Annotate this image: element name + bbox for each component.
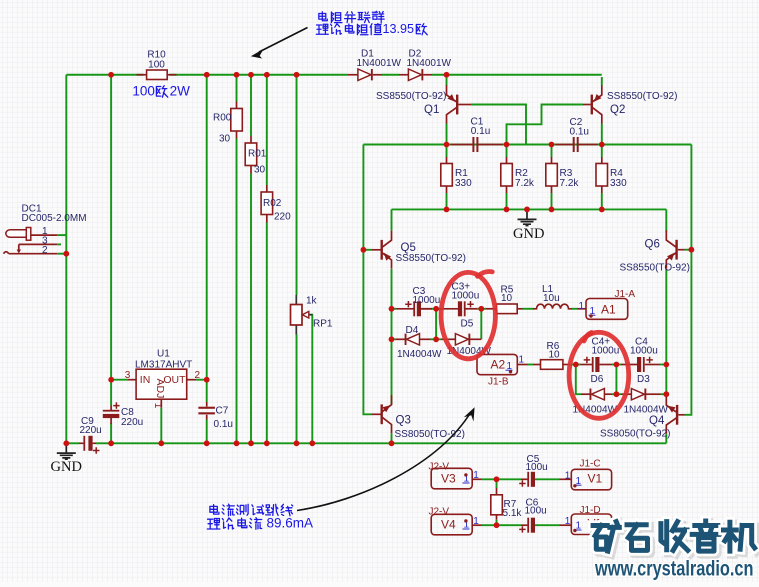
resistor R3 [546, 164, 558, 187]
wire Q6 base stub [678, 249, 685, 251]
wire R2 top stub [506, 157, 508, 164]
wire D3 right stub [645, 393, 660, 395]
svg-text:J1-C: J1-C [580, 459, 601, 470]
connector J1-C box V1 [571, 469, 611, 490]
wire C8 bottom stub [110, 417, 112, 424]
wire Q3 to bottom rail [391, 433, 393, 443]
svg-text:J1-B: J1-B [488, 376, 509, 387]
wire top rail D1 to D2 [382, 74, 399, 76]
svg-text:J1-D: J1-D [580, 505, 601, 516]
svg-text:1N4004W: 1N4004W [397, 349, 442, 360]
ground GND top [518, 209, 537, 225]
wire C3 right stub [422, 308, 433, 310]
ground GND bottom left [57, 443, 76, 459]
capacitor C8 [103, 402, 120, 418]
wire DC input left column [65, 235, 67, 443]
wire C7 top stub [206, 402, 208, 407]
wire Q1 emitter green [446, 77, 448, 86]
svg-text:SS8050(TO-92): SS8050(TO-92) [600, 429, 670, 440]
annotation arrow to resistor group [251, 28, 308, 59]
capacitor C4+ [584, 357, 600, 372]
svg-text:0.1u: 0.1u [570, 127, 589, 138]
junction bottom rail / R01 [248, 440, 254, 446]
wire top rail R10 to D1 [170, 74, 349, 76]
svg-text:V1: V1 [588, 472, 603, 486]
svg-text:10: 10 [549, 349, 561, 360]
transistor Q5 SS8550 [381, 231, 392, 269]
svg-text:ADJ: ADJ [154, 379, 166, 399]
wire junction-D3 green [616, 393, 621, 395]
svg-text:2: 2 [42, 245, 48, 256]
wire U1 pin3 green [111, 379, 128, 381]
pin dot A1 [589, 314, 592, 317]
wire DC1 pin1 to column [57, 234, 66, 236]
junction C3 row left [389, 306, 395, 312]
junction top rail / Q1 emitter [444, 72, 450, 78]
wire R5-L1 green [523, 308, 534, 310]
junction C4+ / C4 [614, 362, 620, 368]
wire R10 left stub [137, 74, 147, 76]
wire top rail left of R10 [66, 74, 143, 76]
resistor R00 [231, 109, 243, 132]
svg-text:3: 3 [125, 370, 131, 381]
svg-text:330: 330 [455, 178, 472, 189]
svg-text:GND: GND [513, 226, 544, 242]
wire R6 right stub [563, 364, 568, 366]
pin dot V3 [464, 473, 467, 476]
wire RP1 top [296, 75, 298, 295]
annotation curved arrow to J1-B jumper [297, 407, 475, 510]
junction C1 row / R2 [504, 142, 510, 148]
svg-text:7.2k: 7.2k [515, 178, 535, 189]
resistor R1 [441, 164, 453, 187]
svg-text:30: 30 [219, 133, 231, 144]
capacitor C6 [519, 518, 535, 533]
svg-text:89.6mA: 89.6mA [267, 516, 314, 531]
capacitor C9 [79, 436, 100, 454]
resistor R02 [261, 192, 273, 215]
wire U1 pin3 stub [128, 379, 136, 381]
wire C4 junction vertical [615, 365, 617, 395]
wire V3 pin stub [472, 478, 481, 480]
svg-text:1k: 1k [306, 295, 318, 306]
svg-text:1000u: 1000u [592, 345, 620, 356]
wire C4plus-C4 green [612, 364, 622, 366]
wire Q6 collector from GND rail [665, 209, 667, 231]
wire column C7 lower [206, 420, 208, 444]
wire R3 top green [551, 145, 553, 158]
wire R01 top green [250, 75, 252, 136]
resistor R5 [497, 304, 518, 314]
wire R10 right stub [167, 74, 176, 76]
wire Q6 emitter column [665, 269, 667, 394]
diode D4 [405, 334, 420, 345]
wire Q4 base stub [678, 414, 684, 416]
junction C4 right / Q6 column [663, 362, 669, 368]
capacitor C7 [198, 407, 215, 415]
diode D2 [408, 69, 423, 81]
svg-text:1N4001W: 1N4001W [407, 58, 452, 69]
wire D4 row left green [392, 338, 397, 340]
wire R1 top green [446, 145, 448, 158]
wire C1 row to Q5 base [362, 145, 364, 250]
wire D2 cathode stub [423, 74, 432, 76]
wire D4-D5 green [431, 338, 442, 340]
wire C3 left stub [397, 308, 414, 310]
svg-text:7.2k: 7.2k [560, 178, 580, 189]
junction GND rail / R3 [549, 207, 555, 213]
wire R2 top green [506, 145, 508, 158]
wire A2-R6 green [528, 364, 534, 366]
wire DC1 pin2 to column [57, 253, 66, 255]
junction bottom rail / C8 [108, 440, 114, 446]
capacitor C2 [573, 137, 579, 152]
wire V1 pin stub [560, 478, 572, 480]
junction bottom rail / R02 [264, 440, 270, 446]
regulator U1 LM317AHVT box [136, 369, 187, 399]
diode D5 [455, 334, 470, 345]
junction top rail / RP1 [294, 72, 300, 78]
diode D6 [590, 389, 605, 400]
wire R00 top stub [236, 102, 238, 110]
wire C6 left stub [521, 524, 527, 526]
transistor Q4 SS8050 [666, 396, 678, 434]
junction C3+ right [478, 306, 484, 312]
wire R3 bottom stub [551, 186, 553, 194]
svg-text:220: 220 [274, 211, 291, 222]
svg-text:Q4: Q4 [649, 415, 665, 427]
wire Q5 emitter green [391, 209, 393, 230]
junction C2 row / R3 [549, 142, 555, 148]
junction GND rail / R1 [444, 207, 450, 213]
wire C3plus right stub [465, 308, 477, 310]
wire R2 bottom green [506, 193, 508, 209]
connector J1-A box [586, 299, 628, 320]
annotation text 电阻并联群 [319, 12, 328, 21]
wire U1 pin1 stub [160, 399, 162, 408]
junction D4 / D5 [433, 336, 439, 342]
junction D3 / Q4 emitter [663, 391, 669, 397]
pin dot V2 [573, 529, 576, 532]
wire top rail D2 to Q2 [432, 74, 602, 76]
svg-text:13.95: 13.95 [383, 22, 415, 36]
connector DC1 barrel jack symbol [4, 228, 58, 254]
wire Q2 collector green [601, 124, 603, 145]
capacitor C1 [472, 137, 478, 152]
wire C4 left stub [621, 364, 637, 366]
wire R5 right stub [517, 308, 523, 310]
wire C2 left green nub [552, 144, 556, 146]
junction top rail / R01 [248, 72, 254, 78]
svg-text:D3: D3 [637, 374, 650, 385]
capacitor C4 [637, 357, 653, 372]
svg-text:5.1k: 5.1k [503, 508, 523, 519]
wire V4 to C6 green [482, 524, 522, 526]
wire R3 top stub [551, 157, 553, 164]
wire R00 top green [236, 75, 238, 102]
pin dot A2 [509, 370, 512, 373]
wire Q3 base stub [372, 413, 381, 415]
wire GND rail [392, 208, 667, 210]
svg-text:RP1: RP1 [313, 319, 333, 330]
svg-text:Q2: Q2 [610, 104, 625, 116]
wire R4 top green [601, 145, 603, 158]
wire Q2 emitter green [601, 77, 603, 86]
wire V2 pin stub [560, 524, 572, 526]
hand-drawn red circle around C4+ D6 [569, 332, 629, 418]
wire D3 left stub [621, 393, 632, 395]
wire C1 left green nub [447, 144, 451, 146]
wire C1 left stub [451, 144, 473, 146]
junction GND rail / R2 [504, 207, 510, 213]
svg-text:1: 1 [152, 403, 163, 409]
wire C2 row to right column [602, 144, 692, 146]
wire L1 to A1 green [572, 308, 578, 310]
wire U1 pin1 to bottom rail [160, 408, 162, 444]
svg-text:Q6: Q6 [645, 238, 660, 250]
junction C1 row / R1 [444, 142, 450, 148]
svg-text:J1-A: J1-A [615, 289, 636, 300]
wire D6 left stub [581, 393, 590, 395]
capacitor C3+ [458, 301, 474, 316]
resistor R7 [491, 495, 503, 515]
resistor R4 [596, 164, 608, 187]
junction bottom rail / C7 [204, 440, 210, 446]
wire Q2 base cross-coupling [507, 105, 584, 145]
wire Q5 base column to Q3 base [363, 250, 371, 414]
junction bottom rail / Q3 [389, 440, 395, 446]
svg-text:D6: D6 [591, 374, 604, 385]
svg-text:1N4004W: 1N4004W [624, 405, 669, 416]
inductor L1 [533, 304, 572, 309]
svg-text:2: 2 [195, 370, 201, 381]
wire C3 right stub [421, 308, 431, 310]
wire R02 bottom green [266, 223, 268, 444]
wire V3 to C5 green [482, 478, 522, 480]
wire R2 bottom stub [506, 186, 508, 194]
wire right column C2 row to Q4 base [685, 145, 692, 415]
svg-text:R02: R02 [263, 198, 282, 209]
wire R00 bottom stub [236, 131, 238, 139]
connector J2-V box V4 [431, 514, 472, 535]
wire A1 pin stub [578, 308, 587, 310]
resistor R2 [501, 164, 513, 187]
wire R7 bottom stub [496, 514, 498, 519]
svg-text:1000u: 1000u [413, 295, 441, 306]
wire R4 bottom green [601, 193, 603, 209]
wire R6-C4plus green [568, 364, 581, 366]
annotation text 电流测试跳线 [210, 505, 219, 514]
wire C3-C3plus green [431, 308, 441, 310]
pin dot V4 [464, 519, 467, 522]
svg-text:SS8550(TO-92): SS8550(TO-92) [376, 91, 446, 102]
wire R1 top stub [446, 157, 448, 164]
connector J1-B box [477, 354, 517, 374]
wire U1 pin2 green [196, 379, 207, 381]
svg-text:R00: R00 [213, 113, 232, 124]
wire A2 pin stub [517, 364, 527, 366]
svg-text:LM317AHVT: LM317AHVT [135, 359, 192, 370]
svg-text:0.1u: 0.1u [214, 419, 233, 430]
wire R3 bottom green [551, 193, 553, 209]
svg-text:U1: U1 [157, 349, 170, 360]
wire C6 to V2 green [535, 524, 560, 526]
junction bottom rail / RP1 [294, 440, 300, 446]
svg-text:Q5: Q5 [401, 242, 416, 254]
svg-text:100: 100 [148, 59, 165, 70]
wire R1 bottom green [446, 193, 448, 209]
pin dot V1 [573, 484, 576, 487]
junction DC1 pin2 [63, 251, 69, 257]
wire C2 right green nub [598, 144, 602, 146]
wire Q1 collector green [446, 124, 448, 145]
wire D3-Q4 green [661, 393, 667, 395]
annotation text 理论电流 89.6mA [207, 519, 220, 530]
svg-text:1000u: 1000u [630, 345, 658, 356]
junction top rail / C7 column [204, 72, 210, 78]
junction Q5 base [361, 247, 367, 253]
svg-text:30: 30 [254, 165, 266, 176]
watermark logo 矿石收音机 [596, 524, 627, 554]
wire C3 row left green [392, 308, 397, 310]
svg-text:1N4001W: 1N4001W [357, 58, 402, 69]
svg-text:www.crystalradio.cn: www.crystalradio.cn [594, 557, 753, 581]
wire R01 top stub [250, 136, 252, 144]
svg-text:10u: 10u [543, 293, 560, 304]
svg-text:1: 1 [565, 516, 571, 527]
wire C2 right stub [579, 144, 598, 146]
wire C3plus-D5 vertical green [480, 309, 482, 340]
wire RP1 wiper to bottom rail [306, 315, 312, 444]
wire R7 bottom green [496, 520, 498, 525]
wire D2 anode stub [399, 74, 408, 76]
wire bottom rail left [66, 442, 79, 444]
wire V4 pin stub [472, 524, 481, 526]
resistor R6 [541, 360, 563, 370]
svg-text:1: 1 [579, 301, 585, 312]
svg-text:330: 330 [610, 178, 627, 189]
wire D1 anode stub [348, 74, 358, 76]
capacitor C3 [405, 301, 421, 316]
junction C2 row / R4 [599, 142, 605, 148]
wire C3-D4 junction vertical [435, 309, 437, 340]
wire C4plus left stub [581, 364, 593, 366]
connector J2-V box V3 [431, 468, 472, 489]
svg-text:2W: 2W [170, 83, 191, 98]
svg-text:Q1: Q1 [424, 104, 439, 116]
junction bottom rail / GND [63, 440, 69, 446]
wire RP1 bottom [296, 335, 298, 444]
wire C3plus-R5 green [477, 308, 486, 310]
resistor R01 [245, 143, 257, 166]
svg-text:100u: 100u [525, 506, 547, 517]
wire R1 bottom stub [446, 186, 448, 194]
hand-drawn red circle around C3+ D5 [441, 272, 495, 359]
wire C1 right green nub [503, 144, 507, 146]
wire R02 bottom stub [266, 215, 268, 223]
wire R4 bottom stub [601, 186, 603, 194]
capacitor C5 [519, 472, 535, 487]
wire C4plus right stub [600, 364, 612, 366]
wire C4 right stub [645, 364, 660, 366]
svg-text:0.1u: 0.1u [471, 126, 490, 137]
svg-text:D5: D5 [461, 318, 474, 329]
junction C3 / C3+ [433, 306, 439, 312]
svg-text:A2: A2 [491, 357, 506, 371]
wire Q5 base green [363, 249, 371, 251]
wire Q1 base cross-coupling [471, 105, 526, 145]
wire D4 right stub [418, 338, 430, 340]
wire R7 top green [496, 479, 498, 488]
wire C1 right stub [478, 144, 502, 146]
junction bottom rail / U1 pin1 [158, 440, 164, 446]
svg-text:Q3: Q3 [396, 414, 411, 426]
svg-text:V3: V3 [441, 472, 456, 486]
wire bottom rail [96, 442, 666, 444]
junction V4 row / R7 [494, 522, 500, 528]
annotation text 理论电阻值13.95欧 [316, 24, 328, 34]
wire R02 top green [266, 75, 268, 185]
svg-text:DC005-2.0MM: DC005-2.0MM [22, 213, 87, 224]
wire R02 top stub [266, 185, 268, 193]
junction top rail / R02 [264, 72, 270, 78]
wire R5 left stub [486, 308, 497, 310]
wire left column upper [65, 75, 67, 235]
svg-text:1: 1 [565, 470, 571, 481]
transistor Q1 SS8550 [447, 85, 459, 123]
transistor Q2 SS8550 [591, 85, 602, 123]
wire Q5 base stub [372, 249, 381, 251]
svg-text:SS8550(TO-92): SS8550(TO-92) [620, 263, 690, 274]
junction U1 pin2 [204, 377, 210, 383]
svg-text:220u: 220u [80, 425, 102, 436]
svg-text:1: 1 [473, 470, 479, 481]
resistor R10 [147, 70, 168, 80]
wire Q1 base stub [458, 104, 471, 106]
wire column C8 lower [110, 423, 112, 443]
svg-text:1: 1 [473, 516, 479, 527]
connector J1-D box V2 [571, 514, 611, 535]
diode D3 [631, 389, 646, 400]
junction D6 / D3 [614, 391, 620, 397]
junction GND rail / R4 [599, 207, 605, 213]
svg-text:J2-V: J2-V [429, 507, 450, 518]
junction bottom rail / R00 [234, 440, 240, 446]
wire D6 left vertical green [576, 365, 581, 395]
junction top rail / R00 [234, 72, 240, 78]
junction bottom rail / RP1 wiper [309, 440, 315, 446]
wire D5 left stub [442, 338, 457, 340]
svg-text:GND: GND [51, 459, 82, 475]
wire column C8 upper [110, 75, 112, 406]
wire C4-Q6 green [660, 364, 666, 366]
svg-text:A1: A1 [601, 302, 616, 316]
wire R00 bottom green [236, 139, 238, 444]
wire C1 C2 row [363, 144, 601, 146]
wire C5 left stub [521, 478, 527, 480]
wire column C7 upper [206, 75, 208, 402]
wire R4 top stub [601, 157, 603, 164]
wire R7 top stub [496, 488, 498, 495]
svg-text:D4: D4 [406, 325, 419, 336]
junction U1 pin3 [108, 377, 114, 383]
wire R01 bottom green [250, 174, 252, 444]
wire C3plus left stub [441, 308, 458, 310]
wire D6-junction green [612, 393, 616, 395]
svg-text:220u: 220u [121, 417, 143, 428]
wire C8 top stub [110, 406, 112, 411]
wire D6 right stub [604, 393, 612, 395]
